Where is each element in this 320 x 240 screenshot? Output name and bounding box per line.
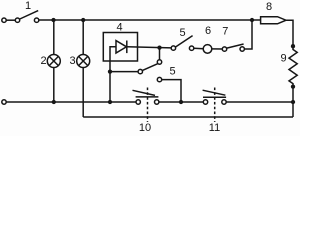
switch S1 left contact [15,18,19,22]
node anode bottom [108,100,112,104]
wire switch7 up to rail [245,20,253,49]
lamp E3 [77,55,90,68]
bottom rail left [2,100,6,104]
switch S10 left contact [136,100,140,104]
terminal left-top [2,18,6,22]
svg-text:11: 11 [209,122,220,134]
svg-text:1: 1 [25,0,31,12]
switch S11 blade [203,90,226,95]
resistor R9 [289,46,297,86]
switch S11 left contact [203,100,207,104]
diode D1 anode lead [110,47,116,102]
switch S5b lower contact [157,77,161,81]
box unit 4 [103,33,137,62]
node lamp3 top [81,18,85,22]
node switch7 top [250,18,254,22]
switch S5a left contact [171,46,175,50]
wire lamp2 drop [53,20,55,55]
node lamp2 bottom [52,100,56,104]
lamp E2 [47,55,60,68]
switch S10 right contact [155,100,159,104]
wire lamp2 to rail [53,68,55,103]
switch S5b blade [142,64,158,71]
switch S7 right contact [240,47,244,51]
node lamp2 top [51,18,55,22]
svg-text:8: 8 [266,1,272,13]
wire bottom rail segment3 [226,101,293,103]
switch S11 bridge bar [203,96,226,98]
wire switch5b common drop [159,48,161,60]
switch S5b left contact [138,69,142,73]
wire lamp3 drop [82,20,84,55]
switch S5a blade [176,36,193,47]
connector 8 [261,17,286,24]
node right rail junction [291,100,295,104]
svg-text:4: 4 [116,22,122,34]
wire motor to switch7 [212,48,223,50]
switch S10 linkage dashes [147,88,149,123]
wire connector to right vertical [286,20,293,46]
motor M6 [203,45,212,54]
wire lamp3 to lower rail (crosses main rail) [82,68,84,118]
switch S1 blade [20,11,38,19]
svg-text:5: 5 [179,27,185,39]
node resistor bottom [291,84,295,88]
wire lower contact to rail [162,80,181,102]
switch S11 linkage dashes [214,88,216,123]
node anode junction [108,69,112,73]
svg-text:10: 10 [139,122,151,134]
wire top rail [39,19,261,21]
svg-text:5: 5 [169,65,175,77]
node S5b drop [179,100,183,104]
svg-text:9: 9 [280,53,286,65]
switch S10 bridge bar [136,96,159,98]
wire lower rail [83,116,293,118]
switch S7 blade [227,44,244,48]
switch S11 right contact [222,100,226,104]
svg-text:6: 6 [205,25,211,37]
node switch5 common [157,45,161,49]
svg-text:3: 3 [69,55,75,67]
diode D1 [116,41,127,54]
node resistor top [291,44,295,48]
svg-text:2: 2 [40,55,46,67]
wire switch5b to diode anode node [110,71,138,73]
switch S10 blade [133,90,156,95]
wire bottom rail segment2 [159,101,203,103]
wire to motor 6 [194,47,204,49]
switch S5b top contact [157,60,161,64]
switch S1 right contact [34,18,38,22]
switch S7 left contact [222,47,226,51]
wire diode out to node [127,47,171,48]
svg-text:7: 7 [222,26,228,38]
wire bottom rail segment1 [6,101,136,103]
wire resistor to rails [292,87,294,117]
switch S5a right contact [189,46,193,50]
wire [6,19,15,21]
